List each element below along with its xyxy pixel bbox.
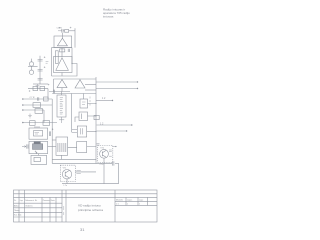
svg-text:1: 1 [139, 204, 140, 206]
main right bus wire [95, 77, 97, 164]
svg-text:Lap: Lap [20, 200, 23, 202]
resistor R8 [35, 109, 43, 114]
title block rows top [14, 194, 158, 198]
bottom bus wire upper [52, 158, 96, 160]
ground [28, 114, 32, 119]
filter block Z2 dark label [34, 142, 41, 144]
resistor R6 [44, 97, 49, 101]
wire [85, 84, 96, 86]
svg-text:Ps: Ps [14, 200, 16, 202]
microphone BM1 [29, 62, 33, 66]
wire [61, 88, 63, 92]
crystal filter ZQ1 box [56, 137, 68, 155]
resistor R2 [60, 49, 65, 52]
wire [62, 179, 119, 184]
amplifier box [54, 57, 73, 73]
wire [79, 78, 81, 81]
terminal [126, 130, 127, 131]
wire input line 4 [23, 122, 57, 124]
wire out 1 [96, 81, 137, 83]
wire [53, 79, 55, 92]
terminal [137, 88, 138, 89]
wire [52, 47, 73, 49]
transistor VT1 dashed box [98, 146, 113, 163]
crystal bars [58, 143, 66, 152]
node [95, 131, 96, 132]
narrow column marks [63, 206, 65, 215]
node [22, 98, 24, 100]
wire [75, 116, 96, 122]
capacitor C1 [58, 27, 65, 33]
svg-text:Mastelis: Mastelis [116, 199, 123, 202]
title text [78, 204, 103, 212]
filter block Z1 inner [34, 131, 43, 136]
wire [103, 158, 105, 183]
op-amp U3 triangle [57, 80, 67, 88]
wire [39, 56, 41, 84]
wire [71, 94, 73, 133]
microphone BM2 [29, 70, 33, 74]
title block middle divider [114, 190, 116, 222]
wire input line 3 [23, 109, 44, 111]
scale table text [116, 199, 143, 206]
svg-text:C7 R: C7 R [30, 97, 35, 99]
label vertical [89, 97, 91, 106]
op-amp U2 triangle [56, 58, 69, 71]
block A3 [77, 126, 86, 137]
capacitor C4 [38, 66, 46, 71]
wire [85, 89, 96, 91]
resistor R10 [43, 121, 50, 126]
svg-text:Atliko: Atliko [14, 204, 19, 207]
svg-text:31: 31 [80, 227, 85, 232]
title block narrow column [65, 190, 67, 222]
terminal [113, 146, 116, 148]
node [36, 152, 37, 153]
svg-text:imtuvas: imtuvas [103, 14, 114, 18]
capacitor marks inside A3 [81, 128, 83, 134]
title block left rows [14, 203, 63, 217]
wire [49, 91, 70, 93]
wire [87, 131, 96, 133]
wire [61, 92, 63, 96]
svg-text:Dokument. Nr.: Dokument. Nr. [25, 199, 38, 202]
ground [36, 84, 40, 88]
scale table [115, 197, 157, 205]
wire [62, 33, 64, 39]
wire [48, 146, 56, 148]
resistor R1 [65, 30, 69, 33]
svg-text:1: 1 [127, 204, 128, 206]
label marks [82, 102, 86, 105]
op-amp U1 triangle [57, 38, 67, 46]
wire [38, 154, 40, 156]
diode marks [76, 170, 80, 173]
node plus mark [48, 84, 50, 86]
small box on bus [94, 115, 99, 119]
wire [28, 88, 48, 90]
terminal [137, 81, 138, 82]
title block left columns [19, 190, 62, 222]
wire [31, 66, 33, 70]
resistor ticks into VT1 box [97, 144, 100, 146]
wire [43, 110, 45, 123]
wire [52, 139, 56, 141]
wire [51, 48, 53, 76]
svg-text:L7u: L7u [64, 185, 67, 187]
wire [33, 83, 48, 85]
transistor VT1 [100, 149, 109, 158]
amp bus wire [54, 78, 97, 80]
wire input line 1 [23, 98, 52, 100]
svg-text:Tikrino: Tikrino [14, 209, 20, 212]
wire [61, 73, 63, 77]
svg-text:Lapas: Lapas [127, 200, 132, 202]
node plus mark [35, 151, 37, 153]
IC DA1 tall box [57, 95, 66, 117]
resistor marks right [109, 150, 112, 156]
filter block Z1 outer [29, 128, 48, 139]
node [22, 104, 24, 106]
capacitor ticks into A3 [72, 130, 77, 133]
wire input line 2 [23, 104, 52, 106]
svg-text:Vardenis: Vardenis [25, 204, 32, 207]
wire [61, 78, 63, 81]
wire [84, 94, 97, 104]
resistor R5 [40, 86, 45, 90]
transistor VT2 [62, 170, 71, 179]
wire out 4 [97, 124, 132, 126]
terminal [112, 100, 113, 101]
resistor R9 [30, 121, 36, 126]
resistor R3 [55, 51, 58, 64]
wire [75, 171, 96, 173]
wire bus upper [52, 93, 96, 95]
resistor R7 [33, 103, 41, 108]
svg-text:Lapu: Lapu [139, 200, 143, 202]
wire [61, 155, 63, 159]
node [22, 122, 24, 124]
filter block Z2 inner [33, 144, 43, 150]
svg-text:principine schema: principine schema [78, 208, 103, 212]
block A2 inner [81, 114, 83, 120]
wire [61, 48, 63, 57]
filter block Z3 inner [34, 157, 40, 161]
input arrow [22, 146, 26, 148]
transistor VT2 dashed box [60, 165, 75, 181]
node plus mark [52, 128, 54, 130]
wire [71, 48, 73, 64]
node plus mark [70, 27, 72, 29]
label marks [46, 62, 49, 64]
capacitor C3 mic coupling [38, 56, 46, 61]
wire [68, 146, 96, 149]
capacitor C5 [38, 78, 43, 80]
title block header text [14, 199, 56, 216]
wire out 3 [96, 100, 112, 102]
wire [115, 162, 119, 164]
label marks [35, 133, 40, 134]
block A4 [77, 142, 87, 153]
capacitor C6 [38, 97, 39, 101]
op-amp U4 triangle [75, 80, 85, 88]
wire supply stub [74, 28, 76, 47]
wire [69, 30, 75, 32]
node [71, 63, 72, 64]
wire [118, 163, 120, 183]
wire out 2 [96, 88, 137, 90]
label marks [60, 98, 63, 114]
node [22, 109, 24, 111]
capacitor C10 [53, 90, 54, 94]
block A1 [80, 99, 88, 108]
header note text top right [103, 7, 130, 18]
wire [31, 59, 33, 62]
title block frame [14, 190, 158, 222]
node [95, 103, 96, 104]
resistor R4 [33, 86, 38, 90]
bottom bus wire [52, 162, 112, 164]
svg-text:C7u: C7u [100, 164, 104, 166]
op-amp U1 box [54, 36, 72, 48]
label [34, 126, 40, 128]
capacitor C9 [27, 144, 28, 148]
svg-text:Kat. Ved.: Kat. Ved. [14, 214, 22, 217]
capacitor C11 [113, 161, 114, 165]
node [95, 115, 96, 116]
wire [28, 65, 38, 67]
node [115, 146, 116, 147]
svg-text:1:1: 1:1 [116, 204, 119, 206]
filter block Z2 outer [29, 141, 48, 153]
capacitor C2 [68, 49, 69, 52]
wire [59, 117, 64, 123]
wire feedback [52, 64, 78, 77]
wire [51, 99, 53, 163]
arrow head [131, 124, 133, 126]
filter block Z3 [31, 155, 47, 164]
block A2 [79, 112, 88, 121]
svg-text:Parasas: Parasas [43, 199, 50, 202]
node plus mark [29, 90, 31, 92]
capacitor C8 [49, 131, 50, 136]
wire [47, 89, 49, 99]
wire out 5 [97, 130, 127, 132]
